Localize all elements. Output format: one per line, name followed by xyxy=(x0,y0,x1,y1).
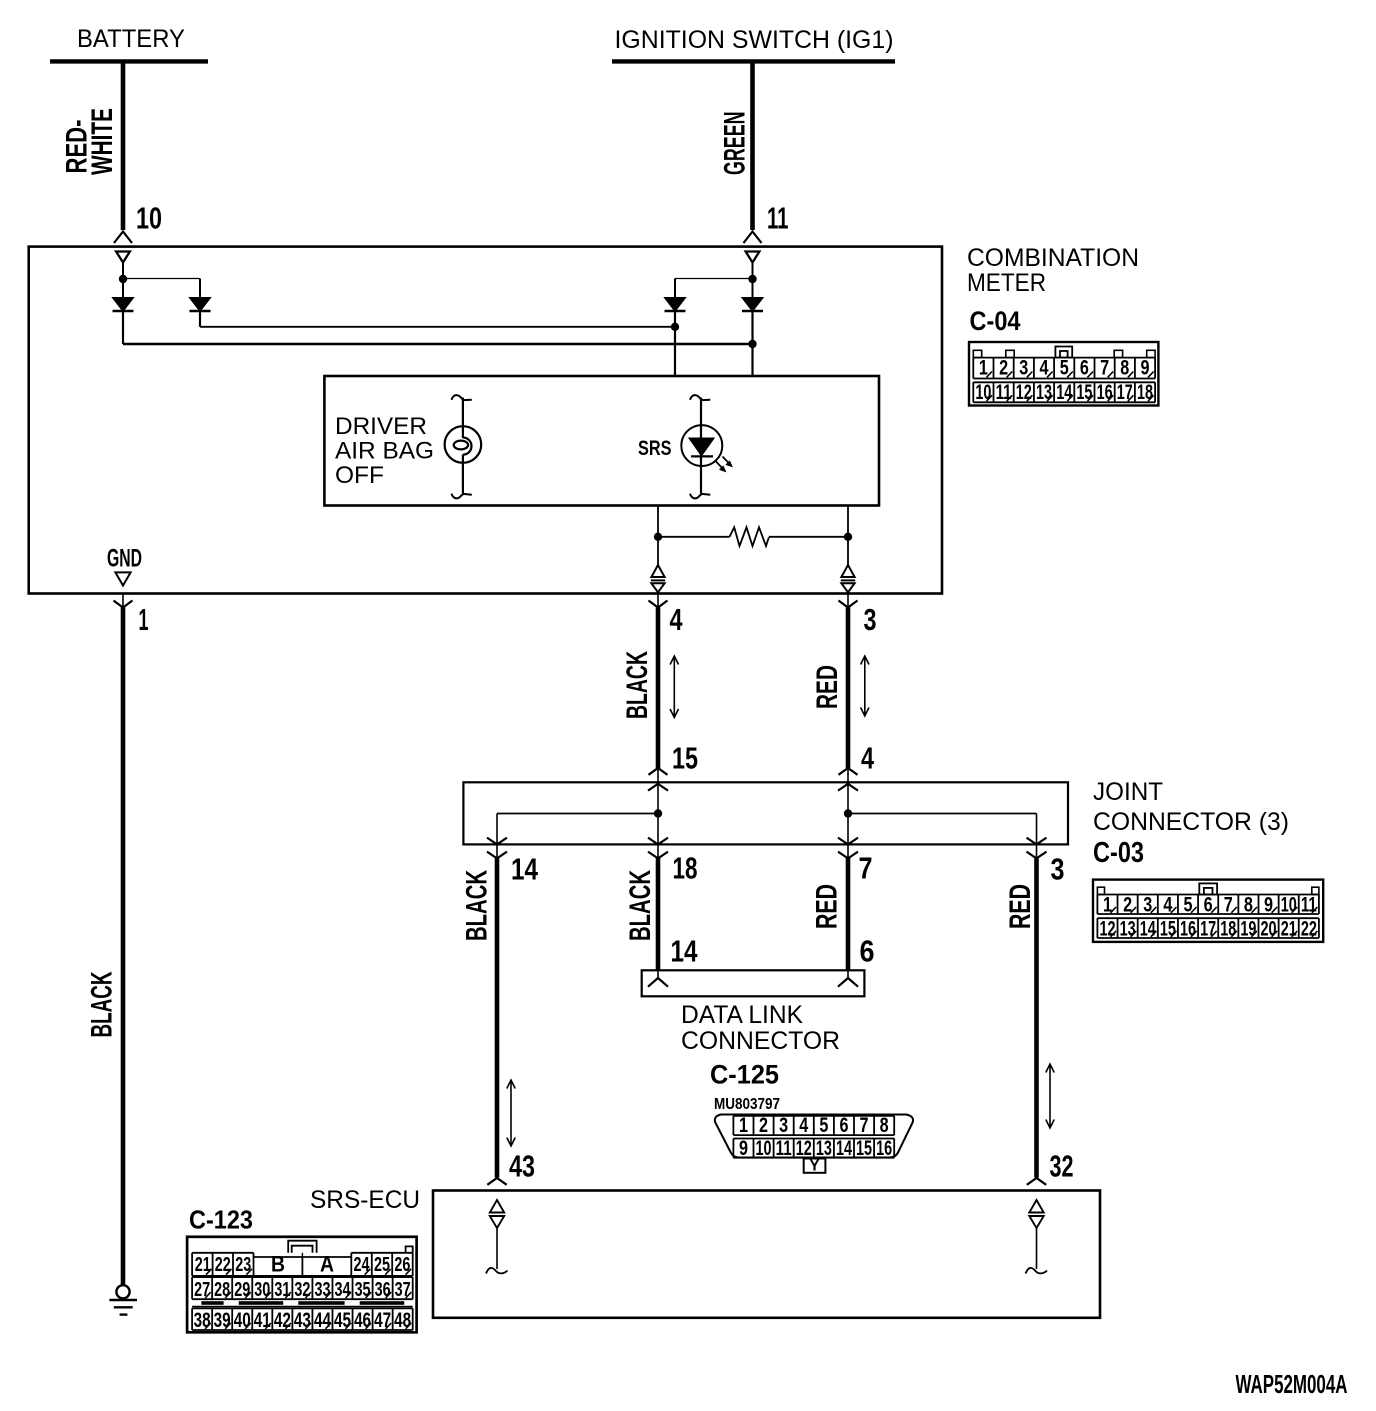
svg-text:13: 13 xyxy=(1036,381,1052,404)
svg-text:BLACK: BLACK xyxy=(86,971,119,1037)
svg-text:18: 18 xyxy=(1137,381,1153,404)
svg-text:41: 41 xyxy=(254,1309,271,1332)
svg-text:38: 38 xyxy=(194,1309,211,1332)
svg-text:3: 3 xyxy=(779,1114,788,1137)
svg-text:CONNECTOR (3): CONNECTOR (3) xyxy=(1093,808,1289,836)
svg-text:15: 15 xyxy=(1076,381,1092,404)
svg-text:15: 15 xyxy=(1160,918,1176,941)
svg-text:AIR BAG: AIR BAG xyxy=(335,438,434,465)
svg-text:12: 12 xyxy=(1099,918,1115,941)
svg-text:4: 4 xyxy=(670,602,684,637)
svg-text:46: 46 xyxy=(354,1309,371,1332)
svg-text:27: 27 xyxy=(194,1279,210,1301)
svg-text:4: 4 xyxy=(799,1114,808,1137)
svg-text:18: 18 xyxy=(1220,918,1236,941)
svg-text:29: 29 xyxy=(234,1279,250,1301)
svg-text:DATA LINK: DATA LINK xyxy=(681,1001,803,1029)
svg-text:GND: GND xyxy=(107,545,142,573)
svg-text:MU803797: MU803797 xyxy=(714,1096,780,1113)
svg-text:6: 6 xyxy=(1080,357,1089,380)
svg-text:1: 1 xyxy=(139,602,149,637)
svg-text:48: 48 xyxy=(394,1309,411,1332)
svg-text:SRS: SRS xyxy=(638,437,672,460)
svg-text:10: 10 xyxy=(756,1137,772,1160)
svg-text:11: 11 xyxy=(996,381,1012,404)
svg-text:3: 3 xyxy=(1019,357,1028,380)
svg-text:A: A xyxy=(320,1252,334,1277)
svg-text:6: 6 xyxy=(839,1114,848,1137)
svg-text:GREEN: GREEN xyxy=(719,112,752,176)
svg-text:31: 31 xyxy=(274,1279,290,1301)
svg-text:14: 14 xyxy=(1056,381,1072,404)
svg-text:WAP52M004A: WAP52M004A xyxy=(1236,1369,1348,1399)
svg-text:15: 15 xyxy=(856,1137,872,1160)
svg-text:3: 3 xyxy=(864,602,877,637)
svg-text:14: 14 xyxy=(1140,918,1156,941)
svg-text:39: 39 xyxy=(214,1309,231,1332)
svg-text:16: 16 xyxy=(876,1137,892,1160)
svg-text:JOINT: JOINT xyxy=(1093,778,1163,806)
svg-text:3: 3 xyxy=(1143,894,1152,917)
svg-text:SRS-ECU: SRS-ECU xyxy=(310,1186,420,1214)
svg-text:METER: METER xyxy=(967,269,1046,297)
svg-text:19: 19 xyxy=(1240,918,1256,941)
svg-text:2: 2 xyxy=(999,357,1008,380)
svg-text:32: 32 xyxy=(294,1279,310,1301)
svg-text:32: 32 xyxy=(1050,1149,1074,1184)
svg-text:35: 35 xyxy=(355,1279,371,1301)
svg-text:11: 11 xyxy=(776,1137,792,1160)
svg-text:C-125: C-125 xyxy=(710,1060,779,1090)
svg-text:44: 44 xyxy=(314,1309,331,1332)
svg-text:BLACK: BLACK xyxy=(624,870,657,941)
svg-text:18: 18 xyxy=(673,851,698,886)
svg-text:47: 47 xyxy=(374,1309,391,1332)
svg-text:6: 6 xyxy=(860,934,875,969)
svg-text:43: 43 xyxy=(509,1149,535,1184)
svg-text:9: 9 xyxy=(739,1137,748,1160)
svg-text:IGNITION SWITCH (IG1): IGNITION SWITCH (IG1) xyxy=(615,26,894,54)
svg-text:C-04: C-04 xyxy=(970,306,1021,336)
svg-text:21: 21 xyxy=(1281,918,1297,941)
svg-text:16: 16 xyxy=(1097,381,1113,404)
svg-text:16: 16 xyxy=(1180,918,1196,941)
svg-text:20: 20 xyxy=(1261,918,1277,941)
svg-text:15: 15 xyxy=(672,741,698,776)
svg-text:11: 11 xyxy=(1301,894,1317,917)
svg-text:7: 7 xyxy=(859,851,873,886)
svg-text:42: 42 xyxy=(274,1309,291,1332)
svg-text:10: 10 xyxy=(1281,894,1297,917)
svg-text:6: 6 xyxy=(1204,894,1213,917)
svg-text:RED: RED xyxy=(1004,884,1037,929)
svg-text:40: 40 xyxy=(234,1309,251,1332)
svg-text:3: 3 xyxy=(1051,852,1065,887)
svg-text:4: 4 xyxy=(861,741,875,776)
svg-text:10: 10 xyxy=(136,201,162,236)
svg-text:10: 10 xyxy=(975,381,991,404)
svg-text:7: 7 xyxy=(1224,894,1233,917)
svg-text:7: 7 xyxy=(860,1114,869,1137)
svg-text:14: 14 xyxy=(671,934,699,969)
svg-text:9: 9 xyxy=(1141,357,1150,380)
svg-text:5: 5 xyxy=(819,1114,828,1137)
svg-text:13: 13 xyxy=(816,1137,832,1160)
svg-text:COMBINATION: COMBINATION xyxy=(967,244,1139,272)
svg-text:43: 43 xyxy=(294,1309,311,1332)
svg-text:36: 36 xyxy=(375,1279,391,1301)
svg-text:17: 17 xyxy=(1200,918,1216,941)
svg-text:BATTERY: BATTERY xyxy=(77,25,185,53)
svg-text:14: 14 xyxy=(511,852,539,887)
svg-text:12: 12 xyxy=(1016,381,1032,404)
svg-text:12: 12 xyxy=(796,1137,812,1160)
svg-text:C-123: C-123 xyxy=(189,1205,253,1235)
svg-text:30: 30 xyxy=(254,1279,270,1301)
svg-text:DRIVER: DRIVER xyxy=(335,413,427,440)
svg-text:BLACK: BLACK xyxy=(621,651,654,719)
svg-text:Y: Y xyxy=(810,1158,820,1175)
svg-text:33: 33 xyxy=(314,1279,330,1301)
svg-text:8: 8 xyxy=(880,1114,889,1137)
svg-text:11: 11 xyxy=(767,201,789,236)
svg-text:RED: RED xyxy=(811,665,844,709)
svg-text:22: 22 xyxy=(1301,918,1317,941)
svg-text:37: 37 xyxy=(395,1279,411,1301)
svg-text:BLACK: BLACK xyxy=(461,870,494,941)
svg-text:2: 2 xyxy=(1123,894,1132,917)
svg-text:17: 17 xyxy=(1117,381,1133,404)
svg-text:B: B xyxy=(271,1252,285,1277)
svg-text:13: 13 xyxy=(1120,918,1136,941)
svg-text:C-03: C-03 xyxy=(1093,837,1144,869)
svg-text:2: 2 xyxy=(759,1114,768,1137)
svg-text:28: 28 xyxy=(214,1279,230,1301)
svg-text:7: 7 xyxy=(1100,357,1109,380)
svg-text:45: 45 xyxy=(334,1309,351,1332)
svg-text:RED: RED xyxy=(811,884,844,929)
svg-text:OFF: OFF xyxy=(335,462,384,489)
svg-text:14: 14 xyxy=(836,1137,852,1160)
svg-text:1: 1 xyxy=(739,1114,748,1137)
svg-text:34: 34 xyxy=(335,1279,352,1301)
svg-text:WHITE: WHITE xyxy=(86,108,119,175)
svg-text:9: 9 xyxy=(1264,894,1273,917)
svg-text:CONNECTOR: CONNECTOR xyxy=(681,1027,840,1055)
